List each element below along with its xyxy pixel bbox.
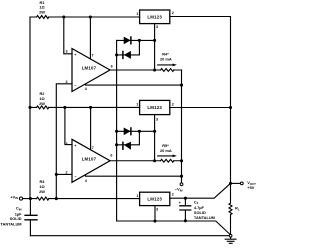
node C2 ground bbox=[184, 219, 187, 222]
svg-text:2: 2 bbox=[65, 170, 67, 174]
wire R1 row bbox=[30, 16, 140, 18]
node diode D4 cathode junction bbox=[115, 143, 118, 146]
svg-text:3: 3 bbox=[65, 142, 67, 146]
node U4 pin 2 to output rail bbox=[229, 106, 232, 109]
svg-text:+5V: +5V bbox=[247, 185, 254, 190]
svg-text:1: 1 bbox=[136, 194, 138, 198]
wire op-amp U1 pin 7 feed bbox=[89, 17, 91, 59]
capacitor C2 bbox=[184, 198, 186, 221]
svg-text:−VIN: −VIN bbox=[175, 187, 183, 193]
op-amp U1 LM107 bbox=[72, 49, 110, 92]
wire regulator U4 pin 3 bbox=[154, 115, 156, 161]
terminal ground node bbox=[229, 234, 232, 237]
arrowhead R4 current bbox=[173, 64, 177, 67]
svg-text:R4*: R4* bbox=[162, 51, 169, 56]
node U5 pin 3 ground bbox=[153, 219, 156, 222]
svg-text:TANTALUM: TANTALUM bbox=[194, 215, 215, 220]
node diode D1 cathode junction bbox=[138, 39, 141, 42]
node R2 to U2 pin 7 bbox=[89, 106, 92, 109]
svg-text:2: 2 bbox=[65, 80, 67, 84]
wire op-amp U2 output pin 6 bbox=[110, 160, 182, 162]
wire op-amp U1 pin 4 bbox=[86, 84, 182, 85]
svg-text:3: 3 bbox=[156, 25, 158, 29]
wire op-amp U2 pin 2 stub bbox=[56, 173, 72, 175]
svg-text:LM123: LM123 bbox=[147, 197, 162, 202]
wire op-amp U2 pin 7 feed bbox=[90, 107, 92, 149]
svg-text:7: 7 bbox=[92, 146, 94, 150]
svg-text:20 mA: 20 mA bbox=[160, 57, 172, 62]
svg-text:SOLID: SOLID bbox=[194, 210, 206, 215]
terminal VOUT bbox=[240, 182, 243, 185]
current arrow R5 20 mA bbox=[158, 155, 174, 157]
regulator U4 LM123 bbox=[140, 100, 170, 114]
node Vout junction bbox=[229, 182, 232, 185]
wire left input rail bbox=[29, 17, 31, 199]
node U2 output to U4 pin 3 bbox=[153, 159, 156, 162]
svg-text:RL: RL bbox=[235, 206, 240, 212]
wire op-amp U1 pin 2 rail down to R3 node bbox=[56, 84, 72, 199]
node R5 to minus rail bbox=[180, 159, 183, 162]
svg-text:6: 6 bbox=[110, 154, 112, 158]
resistor R4 bbox=[161, 69, 174, 72]
arrowhead R5 current bbox=[173, 155, 177, 158]
svg-text:1: 1 bbox=[136, 103, 138, 107]
wire op-amp U1 output pin 6 bbox=[110, 69, 182, 71]
wire regulator U4 pin 2 to output rail bbox=[170, 107, 231, 109]
node left rail R2 bbox=[28, 106, 31, 109]
node diode pair 2 left top bbox=[115, 130, 118, 133]
svg-text:3: 3 bbox=[156, 208, 158, 212]
svg-text:+: + bbox=[74, 144, 76, 148]
ground bbox=[225, 237, 236, 243]
svg-text:TANTALUM: TANTALUM bbox=[0, 221, 21, 226]
svg-text:2: 2 bbox=[172, 192, 174, 196]
resistor RL bbox=[229, 183, 232, 234]
regulator U5 LM123 bbox=[140, 192, 170, 205]
wire diode-clamp left vertical to ground line bbox=[117, 40, 231, 235]
svg-text:LM123: LM123 bbox=[147, 15, 162, 20]
svg-text:2W: 2W bbox=[39, 189, 45, 194]
diode D1 bbox=[124, 37, 131, 45]
node diode D2 cathode junction bbox=[115, 53, 118, 56]
node diode D3 cathode junction bbox=[138, 130, 141, 133]
svg-text:2W: 2W bbox=[39, 9, 45, 14]
node R2 to U2 pin 3 bbox=[63, 106, 66, 109]
node U2 pin 2 sense bbox=[55, 173, 58, 176]
node U2 pin 4 to minus rail bbox=[180, 175, 183, 178]
wire regulator U5 pin 3 bbox=[154, 206, 156, 221]
svg-text:+: + bbox=[74, 53, 76, 57]
resistor R2 bbox=[37, 106, 49, 109]
svg-text:6: 6 bbox=[111, 65, 113, 69]
current arrow R4 20 mA bbox=[158, 64, 174, 66]
wire R3 row bbox=[23, 198, 140, 200]
svg-text:1: 1 bbox=[136, 12, 138, 16]
wire diode pair D1 D2 frame bbox=[117, 40, 155, 55]
svg-text:LM107: LM107 bbox=[82, 156, 97, 161]
diode D3 bbox=[124, 128, 131, 136]
svg-text:−: − bbox=[74, 175, 76, 179]
svg-text:3: 3 bbox=[156, 117, 158, 121]
wire op-amp U2 pin 4 bbox=[86, 175, 182, 176]
wire ground return bus bbox=[30, 235, 229, 237]
node R1 to U1 pin 3 bbox=[62, 15, 65, 18]
wire Vout terminal stub bbox=[231, 182, 241, 184]
wire diode pair D3 D4 frame bbox=[117, 131, 155, 145]
svg-text:LM123: LM123 bbox=[147, 105, 162, 110]
regulator U3 LM123 bbox=[140, 10, 170, 24]
diode D4 bbox=[124, 142, 131, 150]
svg-text:+VIN: +VIN bbox=[10, 194, 18, 200]
svg-text:−: − bbox=[74, 84, 76, 88]
svg-text:+: + bbox=[179, 201, 181, 205]
wire negative Vin rail bbox=[181, 70, 183, 183]
node R3 sense bbox=[55, 197, 58, 200]
capacitor CIN bbox=[29, 199, 31, 236]
terminal -VIN bbox=[180, 183, 183, 186]
svg-text:2: 2 bbox=[172, 102, 174, 106]
svg-text:2W: 2W bbox=[39, 101, 45, 106]
node diode pair 2 to U4 pin 3 bbox=[153, 130, 156, 133]
node U1 pin 4 to minus rail bbox=[180, 84, 183, 87]
node Vin input bbox=[29, 197, 32, 200]
svg-text:2: 2 bbox=[172, 11, 174, 15]
svg-text:LM107: LM107 bbox=[82, 66, 97, 71]
terminal +VIN bbox=[19, 197, 22, 200]
resistor R1 bbox=[37, 16, 49, 19]
wire regulator U3 pin 2 to output rail bbox=[170, 17, 231, 184]
wire op-amp U2 pin 3 feed bbox=[65, 107, 72, 144]
wire op-amp U1 pin 3 feed bbox=[64, 17, 72, 54]
node diode pair 1 to U3 pin 3 bbox=[153, 39, 156, 42]
node U5 pin 2 output bbox=[184, 197, 187, 200]
resistor R5 bbox=[161, 159, 174, 162]
resistor R3 bbox=[37, 197, 49, 200]
wire regulator U5 pin 2 to Vout node bbox=[170, 183, 231, 198]
node U1 output to U3 pin 3 bbox=[153, 68, 156, 71]
svg-text:SOLID: SOLID bbox=[10, 216, 22, 221]
diode D2 bbox=[124, 51, 131, 59]
svg-text:7: 7 bbox=[92, 54, 94, 58]
op-amp U2 LM107 bbox=[72, 139, 110, 182]
svg-text:3: 3 bbox=[65, 49, 67, 53]
svg-text:20 mA: 20 mA bbox=[160, 148, 172, 153]
node R1 to U1 pin 7 bbox=[89, 15, 92, 18]
wire regulator U3 pin 3 bbox=[154, 24, 156, 70]
wire R2 row bbox=[30, 106, 140, 108]
